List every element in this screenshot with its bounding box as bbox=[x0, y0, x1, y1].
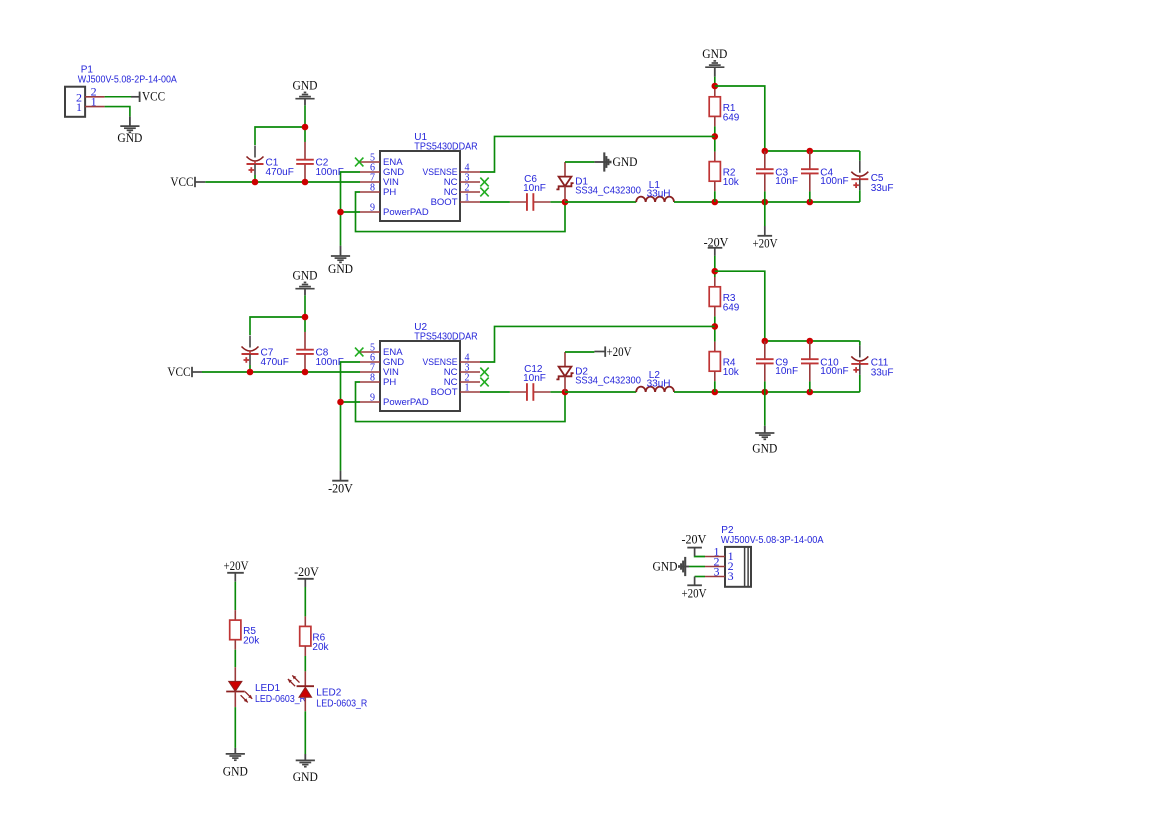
svg-text:GND: GND bbox=[223, 765, 248, 779]
svg-text:10nF: 10nF bbox=[523, 183, 546, 194]
svg-text:LED-0603_R: LED-0603_R bbox=[316, 698, 367, 709]
wire bbox=[859, 151, 861, 161]
capacitor C1 bbox=[247, 146, 294, 178]
wire bbox=[304, 295, 306, 332]
wire bbox=[255, 127, 305, 145]
capacitor C10 100nF bbox=[801, 341, 849, 381]
svg-text:-20V: -20V bbox=[328, 482, 353, 496]
junction PowerPAD tie bbox=[337, 399, 344, 406]
svg-text:9: 9 bbox=[370, 203, 375, 214]
svg-text:BOOT: BOOT bbox=[431, 387, 458, 398]
capacitor C12 bbox=[510, 364, 550, 401]
wire bbox=[550, 391, 565, 393]
wire bbox=[341, 211, 361, 213]
svg-text:GND: GND bbox=[293, 79, 318, 93]
ground GND (output) bbox=[752, 426, 777, 456]
wire bbox=[105, 107, 130, 117]
wire bbox=[674, 391, 715, 393]
wire bbox=[565, 351, 594, 353]
wire bbox=[714, 256, 716, 277]
junction R3 top bbox=[712, 268, 719, 275]
svg-text:PH: PH bbox=[383, 187, 396, 198]
svg-text:10nF: 10nF bbox=[523, 373, 546, 384]
wire bbox=[714, 126, 716, 151]
svg-text:WJ500V-5.08-2P-14-00A: WJ500V-5.08-2P-14-00A bbox=[78, 75, 177, 86]
junction feedback node bbox=[712, 133, 719, 140]
svg-text:SS34_C432300: SS34_C432300 bbox=[575, 375, 641, 386]
wire bbox=[859, 375, 861, 392]
svg-text:GND: GND bbox=[293, 770, 318, 784]
net flag +20V (LED1 branch) bbox=[224, 559, 249, 582]
wire bbox=[715, 86, 765, 151]
wire bbox=[480, 391, 510, 393]
wire bbox=[715, 201, 860, 203]
svg-text:TPS5430DDAR: TPS5430DDAR bbox=[414, 332, 477, 343]
junction rail b bbox=[762, 389, 769, 396]
svg-text:33uH: 33uH bbox=[647, 378, 671, 389]
wire bbox=[304, 587, 306, 616]
svg-text:8: 8 bbox=[370, 183, 375, 194]
ground GND (above C8) bbox=[293, 269, 318, 296]
svg-text:470uF: 470uF bbox=[261, 357, 289, 368]
wire bbox=[356, 382, 566, 422]
svg-text:LED1: LED1 bbox=[255, 683, 280, 694]
junction rail c bbox=[807, 199, 814, 206]
svg-text:WJ500V-5.08-3P-14-00A: WJ500V-5.08-3P-14-00A bbox=[721, 535, 824, 546]
wire bbox=[714, 381, 716, 392]
resistor R5 20k bbox=[230, 610, 261, 650]
net flag +20V (D2 anode) bbox=[594, 345, 631, 359]
junction switch node bbox=[562, 199, 569, 206]
capacitor C9 10nF bbox=[756, 341, 798, 381]
wire bbox=[304, 656, 306, 671]
wire bbox=[202, 371, 360, 373]
IC U2 TPS5430DDAR bbox=[360, 322, 480, 411]
wire bbox=[809, 381, 811, 392]
net flag VCC (U2 input) bbox=[167, 365, 202, 379]
junction top cap node bbox=[302, 124, 309, 131]
junction cap rail a bbox=[762, 338, 769, 345]
diode D1 SS34_C432300 bbox=[556, 162, 641, 202]
svg-text:+20V: +20V bbox=[224, 559, 249, 573]
net flag -20V (LED2 branch) bbox=[294, 565, 319, 587]
wire bbox=[695, 555, 705, 557]
svg-text:PowerPAD: PowerPAD bbox=[383, 207, 429, 218]
LED LED1 LED-0603_R bbox=[226, 667, 306, 707]
capacitor C6 bbox=[510, 174, 550, 211]
svg-text:8: 8 bbox=[370, 373, 375, 384]
wire bbox=[304, 711, 306, 754]
wire bbox=[480, 201, 510, 203]
svg-text:PH: PH bbox=[383, 377, 396, 388]
wire bbox=[234, 650, 236, 668]
svg-text:470uF: 470uF bbox=[266, 167, 294, 178]
svg-text:100nF: 100nF bbox=[316, 357, 344, 368]
no-connect X (NC pin 2) bbox=[480, 378, 488, 387]
wire bbox=[105, 96, 131, 98]
wire bbox=[565, 201, 636, 203]
LED LED2 LED-0603_R bbox=[288, 671, 367, 711]
svg-text:20k: 20k bbox=[243, 636, 260, 647]
wire bbox=[480, 326, 715, 362]
capacitor C11 33uF bbox=[851, 345, 893, 378]
svg-text:10nF: 10nF bbox=[775, 176, 798, 187]
svg-text:LED2: LED2 bbox=[316, 688, 341, 699]
capacitor C7 bbox=[242, 336, 289, 368]
net flag -20V (P2 pin 1) bbox=[682, 533, 707, 556]
junction top cap node bbox=[302, 314, 309, 321]
ground GND (above C2) bbox=[293, 79, 318, 106]
svg-text:9: 9 bbox=[370, 393, 375, 404]
svg-text:1: 1 bbox=[465, 383, 470, 394]
svg-text:100nF: 100nF bbox=[316, 167, 344, 178]
capacitor C5 33uF bbox=[851, 161, 893, 194]
inductor L1 33uH bbox=[636, 180, 674, 202]
junction rail b bbox=[762, 199, 769, 206]
capacitor C4 100nF bbox=[801, 151, 849, 191]
svg-text:+20V: +20V bbox=[682, 586, 707, 600]
svg-text:GND: GND bbox=[613, 155, 638, 169]
wire bbox=[341, 401, 361, 403]
wire bbox=[859, 190, 861, 202]
svg-text:GND: GND bbox=[702, 47, 727, 61]
junction PowerPAD tie bbox=[337, 209, 344, 216]
junction cap rail b bbox=[807, 148, 814, 155]
svg-text:10k: 10k bbox=[723, 367, 740, 378]
svg-text:1: 1 bbox=[465, 193, 470, 204]
svg-text:33uH: 33uH bbox=[647, 188, 671, 199]
wire bbox=[714, 316, 716, 341]
ground GND (U1 pins 6/9) bbox=[328, 246, 353, 276]
net flag +20V (P2 pin 3) bbox=[682, 577, 707, 601]
wire bbox=[714, 191, 716, 202]
svg-text:33uF: 33uF bbox=[871, 183, 894, 194]
wire bbox=[205, 181, 360, 183]
svg-text:10k: 10k bbox=[723, 177, 740, 188]
junction feedback node bbox=[712, 323, 719, 330]
svg-text:SS34_C432300: SS34_C432300 bbox=[575, 185, 641, 196]
svg-text:TPS5430DDAR: TPS5430DDAR bbox=[414, 142, 477, 153]
resistor R6 20k bbox=[300, 616, 330, 656]
svg-text:GND: GND bbox=[653, 560, 678, 574]
wire bbox=[565, 161, 594, 163]
no-connect X (ENA pin 5) bbox=[355, 158, 363, 167]
wire bbox=[689, 566, 705, 568]
ground GND (D1 anode) bbox=[594, 152, 637, 171]
no-connect X (ENA pin 5) bbox=[355, 348, 363, 357]
IC U1 TPS5430DDAR bbox=[360, 132, 480, 221]
svg-text:GND: GND bbox=[293, 269, 318, 283]
wire bbox=[715, 391, 860, 393]
svg-text:100nF: 100nF bbox=[820, 176, 848, 187]
svg-text:649: 649 bbox=[723, 302, 740, 313]
wire bbox=[695, 576, 705, 578]
junction input cap 1 bbox=[252, 179, 259, 186]
no-connect X (NC pin 2) bbox=[480, 188, 488, 197]
diode D2 SS34_C432300 bbox=[556, 352, 641, 392]
net flag VCC (P1) bbox=[131, 90, 165, 104]
svg-text:GND: GND bbox=[328, 262, 353, 276]
ground GND (P1) bbox=[117, 116, 142, 145]
wire bbox=[341, 362, 361, 471]
svg-text:33uF: 33uF bbox=[871, 368, 894, 379]
wire bbox=[809, 191, 811, 202]
svg-text:3: 3 bbox=[714, 565, 720, 579]
svg-text:1: 1 bbox=[91, 94, 97, 108]
connector P1 bbox=[65, 65, 177, 117]
junction cap rail b bbox=[807, 338, 814, 345]
svg-text:-20V: -20V bbox=[682, 533, 707, 547]
wire bbox=[356, 192, 566, 232]
junction switch node bbox=[562, 389, 569, 396]
svg-text:10nF: 10nF bbox=[775, 366, 798, 377]
svg-text:+20V: +20V bbox=[607, 345, 632, 359]
wire bbox=[234, 707, 236, 748]
svg-text:PowerPAD: PowerPAD bbox=[383, 397, 429, 408]
wire bbox=[674, 201, 715, 203]
junction input cap 2 bbox=[302, 369, 309, 376]
no-connect X (NC pin 3) bbox=[480, 368, 488, 377]
capacitor C3 10nF bbox=[756, 151, 798, 191]
svg-text:3: 3 bbox=[728, 569, 734, 583]
wire bbox=[341, 172, 361, 246]
wire bbox=[764, 381, 766, 425]
svg-text:GND: GND bbox=[752, 442, 777, 456]
svg-text:649: 649 bbox=[723, 112, 740, 123]
wire bbox=[249, 365, 251, 372]
net flag VCC (U1 input) bbox=[170, 175, 205, 189]
svg-text:1: 1 bbox=[76, 100, 82, 114]
junction rail a bbox=[712, 199, 719, 206]
wire bbox=[480, 136, 715, 172]
resistor R1 649 bbox=[709, 87, 740, 127]
wire bbox=[859, 341, 861, 345]
junction rail a bbox=[712, 389, 719, 396]
wire bbox=[550, 201, 565, 203]
svg-text:VCC: VCC bbox=[142, 90, 165, 104]
svg-text:100nF: 100nF bbox=[820, 366, 848, 377]
svg-text:VCC: VCC bbox=[167, 365, 190, 379]
capacitor C2 bbox=[296, 142, 344, 182]
wire bbox=[764, 191, 766, 226]
no-connect X (NC pin 3) bbox=[480, 178, 488, 187]
wire bbox=[714, 77, 716, 87]
svg-text:-20V: -20V bbox=[704, 235, 729, 249]
wire bbox=[254, 175, 256, 182]
junction input cap 1 bbox=[247, 369, 254, 376]
wire bbox=[765, 150, 860, 152]
svg-text:20k: 20k bbox=[312, 642, 329, 653]
capacitor C8 bbox=[296, 332, 344, 372]
connector P2 bbox=[705, 525, 824, 587]
junction R1 top bbox=[712, 83, 719, 90]
wire bbox=[234, 582, 236, 610]
ground GND (LED2) bbox=[293, 754, 318, 784]
junction rail c bbox=[807, 389, 814, 396]
wire bbox=[565, 391, 636, 393]
svg-text:GND: GND bbox=[117, 131, 142, 145]
svg-text:P2: P2 bbox=[721, 525, 734, 536]
svg-text:BOOT: BOOT bbox=[431, 197, 458, 208]
net flag -20V (above R3) bbox=[704, 235, 729, 256]
resistor R4 10k bbox=[709, 342, 740, 382]
ground GND (LED1) bbox=[223, 748, 248, 779]
ground GND (above R1) bbox=[702, 47, 727, 77]
svg-text:-20V: -20V bbox=[294, 565, 319, 579]
inductor L2 33uH bbox=[636, 370, 674, 392]
resistor R2 10k bbox=[709, 152, 740, 192]
net flag +20V (output) bbox=[753, 226, 778, 251]
wire bbox=[765, 340, 860, 342]
ground GND (P2 pin 2) bbox=[653, 557, 690, 576]
junction input cap 2 bbox=[302, 179, 309, 186]
wire bbox=[715, 271, 765, 341]
wire bbox=[250, 317, 305, 335]
svg-text:LED-0603_R: LED-0603_R bbox=[255, 694, 306, 705]
junction cap rail a bbox=[762, 148, 769, 155]
svg-text:+20V: +20V bbox=[753, 237, 778, 251]
resistor R3 649 bbox=[709, 277, 740, 317]
wire bbox=[304, 105, 306, 142]
svg-text:VCC: VCC bbox=[170, 175, 193, 189]
net flag -20V (U2 pins 6/9) bbox=[328, 471, 353, 496]
